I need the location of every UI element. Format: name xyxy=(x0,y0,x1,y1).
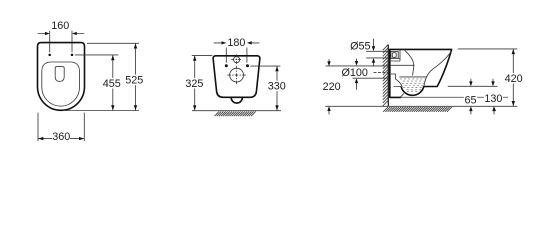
side view: D55 extension lines xyxy=(366,51,388,58)
front view: floor hatching xyxy=(215,111,256,116)
side view: inner bowl front curve xyxy=(424,52,451,86)
svg-text:220: 220 xyxy=(323,81,341,93)
side view: toilet outer profile xyxy=(390,49,452,97)
top view: dimension 360 xyxy=(38,131,84,143)
side view: wall hatching xyxy=(383,45,388,106)
front view: dimension 180 arrows xyxy=(214,41,260,44)
front view: extension line for 325 xyxy=(192,55,213,57)
svg-text:525: 525 xyxy=(125,75,143,87)
svg-text:330: 330 xyxy=(268,81,286,93)
side view: D55 arrows xyxy=(372,39,375,67)
side view: floor line xyxy=(325,105,517,107)
side view: dimension 420 xyxy=(504,49,522,106)
svg-text:65: 65 xyxy=(464,94,476,106)
side view: water hatching dashes xyxy=(400,79,426,92)
svg-text:Ø55: Ø55 xyxy=(350,40,370,52)
side view: dimension 130 xyxy=(484,79,503,115)
side view: dimension 65 xyxy=(464,79,477,115)
side view: flush channel top line xyxy=(390,64,415,66)
top view: dimension 525 xyxy=(125,43,143,110)
side view: inlet pipe rect xyxy=(391,51,398,58)
front view: trap bump xyxy=(231,97,242,103)
front view: outlet circle xyxy=(230,68,244,82)
top view: extension lines for 360 xyxy=(38,113,84,141)
side view: D100 extension lines xyxy=(326,66,389,78)
top view: dimension 455 xyxy=(103,55,121,111)
side view: D100 arrows xyxy=(355,59,358,90)
side view: bottom reference line 65 xyxy=(401,96,509,98)
side view: wall line xyxy=(387,45,389,107)
svg-text:420: 420 xyxy=(505,73,523,85)
front view: extension lines for 180 xyxy=(226,48,247,63)
svg-text:160: 160 xyxy=(51,20,69,32)
svg-text:360: 360 xyxy=(52,131,70,143)
side view: water surface line xyxy=(399,76,426,78)
front view: floor line xyxy=(192,110,281,112)
svg-text:180: 180 xyxy=(227,37,245,49)
svg-text:130: 130 xyxy=(484,93,502,105)
front view: dimension 325 xyxy=(185,56,203,111)
front view: water inlet circle xyxy=(234,57,240,63)
side view: dimension 220 xyxy=(323,59,341,114)
front view: inlet centerlines xyxy=(231,54,242,65)
front view: dimension 330 xyxy=(268,66,286,111)
top view: extension line bottom shared xyxy=(63,110,139,112)
svg-text:455: 455 xyxy=(103,78,121,90)
svg-text:325: 325 xyxy=(185,78,203,90)
side view: extension line for 420 top xyxy=(458,48,517,50)
top view: outer bowl outline xyxy=(38,43,85,111)
side view: trap to foot connector xyxy=(394,87,404,98)
top view: extension line for 525 top xyxy=(87,42,139,44)
front view: extension line for 330 xyxy=(250,65,280,67)
top view: seat fixing holes xyxy=(48,54,51,57)
side view: inlet pipe inner xyxy=(392,53,396,58)
side view: floor hatching xyxy=(383,107,452,112)
top view: flush water distributor xyxy=(55,67,64,82)
front view: outlet centerlines xyxy=(227,66,245,85)
svg-text:Ø100: Ø100 xyxy=(341,67,367,79)
top view: extension line for 455 xyxy=(75,54,119,56)
side view: inner bowl back curve xyxy=(404,50,414,76)
side view: flush channel bottom and weir xyxy=(390,74,402,87)
side view: outlet pipe centerline xyxy=(374,72,389,74)
side view: bottom reference line 130 xyxy=(448,85,498,87)
side view: inlet housing lines xyxy=(390,50,400,61)
front view: fixing bolts xyxy=(225,64,228,67)
top view: dimension 160 line and arrows xyxy=(38,32,85,35)
top view: extension lines for 160 xyxy=(50,31,72,53)
front view: bowl outline xyxy=(213,56,260,98)
top view: inner seat opening xyxy=(42,62,80,106)
